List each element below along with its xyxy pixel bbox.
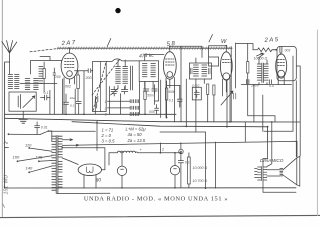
- wire top 01: [167, 84, 180, 86]
- wire HT bottom: [5, 187, 296, 189]
- wire R to bus: [77, 71, 79, 102]
- top bus hatched: [58, 47, 233, 49]
- svg-text:005: 005: [149, 110, 155, 114]
- wires osc coils: [118, 60, 133, 90]
- coil L3: [25, 79, 30, 90]
- tap wire 160: [18, 156, 53, 162]
- IFT1 wires: [145, 55, 164, 89]
- wire 2A5 feed: [236, 44, 253, 50]
- svg-text:10.700 Ω: 10.700 Ω: [193, 179, 208, 183]
- cap 005: [155, 105, 159, 115]
- bus line B5: [160, 132, 206, 188]
- wire antenna to tube: [31, 57, 63, 75]
- divider wires: [188, 153, 190, 188]
- cap 200: [84, 69, 93, 73]
- switch blade: [40, 131, 48, 134]
- speaker transformer core: [262, 167, 264, 181]
- punch hole dot: [115, 8, 120, 13]
- cap 05: [269, 80, 271, 84]
- svg-text:002: 002: [65, 85, 71, 89]
- small box left of W: [209, 57, 219, 66]
- tube 58 base leads: [166, 78, 175, 123]
- svg-text:UNDA RADIO - MOD. « MONO UNDA: UNDA RADIO - MOD. « MONO UNDA 151 »: [84, 196, 228, 203]
- circled junction dot: [180, 151, 182, 153]
- IFT2 box: [189, 63, 211, 79]
- osc tap coil 3: [130, 112, 138, 115]
- switch dot2: [48, 130, 50, 132]
- tube 2A7 cathode: [67, 71, 73, 77]
- power transformer secondary: [58, 136, 62, 187]
- svg-text:10a: 10a: [70, 96, 75, 100]
- tap wire 125: [39, 160, 52, 163]
- divider resistor: [188, 157, 191, 184]
- electrolytic cap 1: [117, 166, 126, 175]
- antenna coil L2: [15, 75, 19, 89]
- osc coil B: [123, 67, 128, 84]
- speaker transformer primary: [258, 167, 261, 180]
- wire right frame: [254, 66, 300, 157]
- resistor right vert: [247, 62, 249, 74]
- electrolytic cap 2: [170, 166, 179, 175]
- svg-text:2a = 13.5: 2a = 13.5: [127, 138, 146, 143]
- svg-text:2 = 0: 2 = 0: [101, 133, 112, 138]
- cap 0.1 beside box: [41, 95, 51, 100]
- svg-text:2: 2: [104, 107, 107, 111]
- resistor under IFT2 a: [207, 84, 209, 95]
- svg-text:L+M = 62μ: L+M = 62μ: [126, 127, 147, 132]
- dashed link to bus: [30, 49, 57, 52]
- svg-text:3 = 0.5: 3 = 0.5: [102, 139, 116, 144]
- dashed gang line 2: [92, 59, 120, 96]
- IFT1 coil b: [151, 64, 156, 77]
- wire tube plate: [75, 71, 85, 115]
- IFT2 coil b: [202, 65, 207, 76]
- wire left cluster: [44, 62, 54, 114]
- power transformer primary: [52, 136, 56, 190]
- tap dot 110: [28, 147, 30, 149]
- variable capacitor arrow: [23, 96, 35, 108]
- resistor 50m wires: [144, 82, 146, 114]
- svg-text:0.1: 0.1: [70, 104, 75, 108]
- rectifier filaments: [86, 167, 93, 173]
- bus line B3: [72, 122, 268, 140]
- tap wire 1: [108, 100, 131, 102]
- svg-text:1 = 71: 1 = 71: [102, 128, 114, 133]
- top right wires: [248, 50, 293, 132]
- svg-text:140: 140: [26, 166, 33, 171]
- dashed gang line: [93, 62, 106, 111]
- tube 58 grids: [166, 59, 175, 65]
- tube 2A5: [276, 54, 287, 78]
- driver transformer primary: [257, 64, 261, 80]
- cap 01 cathode B: [76, 101, 81, 114]
- resistor R osc: [77, 75, 80, 89]
- bus line B6: [244, 122, 246, 142]
- padder cap B: [121, 87, 127, 95]
- antenna: [2, 41, 17, 75]
- tube 2A7 grids: [65, 59, 75, 68]
- svg-text:160: 160: [13, 155, 20, 160]
- svg-text:003: 003: [285, 48, 291, 52]
- svg-text:1: 1: [105, 100, 107, 104]
- cap under 58 a: [144, 89, 149, 94]
- tap dot 160: [17, 160, 19, 162]
- coil L4: [34, 79, 39, 90]
- filter choke: [117, 151, 138, 153]
- svg-text:500k: 500k: [168, 90, 175, 94]
- tube 2A7: [61, 53, 78, 79]
- band box divider: [99, 62, 101, 112]
- wire switch to transformer: [48, 130, 95, 132]
- speaker bottom wire: [263, 181, 296, 193]
- svg-text:2 A 7: 2 A 7: [60, 40, 76, 47]
- osc coil: [39, 67, 43, 84]
- tube W diode: [223, 73, 230, 80]
- tap dot 125: [38, 160, 40, 162]
- svg-text:1000: 1000: [251, 84, 259, 88]
- tube 2A5 leads: [278, 77, 284, 85]
- osc coupling cap: [53, 68, 56, 79]
- svg-text:4a = 50: 4a = 50: [128, 132, 143, 137]
- IFT2 coil a: [193, 65, 198, 76]
- speaker transformer secondary: [263, 167, 266, 180]
- cap 01 under58: [178, 85, 182, 107]
- plug arrow 1: [62, 139, 72, 141]
- wires under IFT2: [196, 86, 214, 132]
- osc coil A: [116, 67, 121, 84]
- circled junction: [179, 149, 183, 153]
- svg-text:110: 110: [25, 142, 32, 147]
- pot volume: [221, 80, 233, 126]
- tap wire 140: [29, 166, 52, 172]
- tube 2A7 top cap: [69, 48, 71, 53]
- tube W: [220, 52, 232, 80]
- bus line B4: [9, 133, 41, 135]
- trimmer in band box: [96, 96, 98, 108]
- slash mark on bus: [107, 39, 111, 47]
- junction dot 2A5: [275, 49, 277, 51]
- padder trimmer arrow: [111, 88, 118, 95]
- scan edge right: [316, 30, 318, 216]
- wire 58 left lead: [160, 80, 162, 118]
- slash mark 2: [209, 35, 213, 43]
- margin tick: [3, 204, 5, 208]
- cap 1000: [246, 80, 249, 84]
- bus line B2: [5, 118, 301, 122]
- svg-text:+: +: [140, 147, 143, 152]
- wire to speaker transformer: [263, 122, 272, 167]
- svg-text:2 A 5: 2 A 5: [263, 37, 279, 44]
- cap 001: [35, 122, 40, 134]
- transformer wires: [259, 54, 267, 85]
- tube 58 top cap wire: [170, 46, 202, 57]
- power transformer core: [56, 136, 58, 194]
- top bus ticks: [57, 47, 230, 50]
- wire HT mid: [62, 158, 78, 165]
- cap under 58 b: [152, 89, 157, 94]
- svg-text:Pu: Pu: [4, 141, 8, 145]
- rectifier leads: [84, 170, 105, 188]
- speaker cone: [283, 156, 300, 186]
- svg-text:10000 Ω: 10000 Ω: [254, 56, 268, 60]
- wire W base marks: [234, 93, 236, 99]
- wire left rail: [5, 62, 10, 188]
- svg-text:W: W: [221, 39, 227, 45]
- ground symbol: [19, 119, 28, 123]
- scan edge bottom: [0, 215, 320, 217]
- tube 58: [163, 52, 176, 80]
- rounded box around 2A5: [277, 46, 296, 80]
- IFT1 coil a: [142, 64, 147, 77]
- osc tap coil 1: [130, 100, 138, 103]
- cap 003: [280, 47, 282, 55]
- tono cap: [194, 90, 199, 98]
- resistor 500k: [165, 88, 167, 100]
- cap 01 cathode A: [64, 94, 69, 114]
- tube 58 cathode: [167, 72, 173, 78]
- rectifier tube 80: [78, 164, 101, 176]
- switch dots: [8, 133, 10, 135]
- svg-text:0.01: 0.01: [41, 126, 48, 130]
- mains feed wire: [5, 131, 52, 148]
- arrow mark: [257, 53, 264, 56]
- tube 2A5 grids: [278, 60, 285, 66]
- svg-text:2: 2: [161, 148, 164, 152]
- resistor left: [43, 69, 45, 79]
- elec cap 1 wires: [121, 153, 124, 188]
- resistor 50m: [144, 91, 146, 99]
- driver transformer core: [262, 63, 264, 83]
- speaker terminals: [255, 169, 258, 178]
- wires right top: [231, 43, 291, 122]
- ground from gang box: [22, 111, 24, 119]
- svg-text:200: 200: [85, 76, 92, 80]
- wire junction dots: [61, 45, 272, 189]
- wire mid verticals: [62, 79, 120, 151]
- wire choke right: [138, 142, 216, 188]
- elec cap 2 wires: [174, 153, 177, 188]
- wire transformer bottom: [57, 192, 110, 194]
- resistor under IFT2 b: [213, 85, 215, 95]
- osc tap coil 2: [130, 106, 138, 109]
- tap dot 140: [28, 171, 30, 173]
- padder cap A: [111, 87, 117, 97]
- tube W grids: [222, 60, 230, 63]
- cap 01 filter: [178, 153, 183, 188]
- IFT1 box: [139, 61, 158, 82]
- voice coil: [280, 168, 283, 176]
- scan edge left: [1, 0, 3, 217]
- plug arrow 2 and long feed wire: [62, 141, 297, 156]
- svg-text:5 8: 5 8: [166, 41, 175, 48]
- wire between 58 IFT2: [181, 46, 186, 126]
- wire mesh mid: [109, 82, 158, 114]
- variable capacitor plates: [18, 95, 20, 109]
- tap wire 2: [108, 107, 131, 109]
- tube W base leads: [223, 79, 231, 123]
- resistor grid 2A5 zigzag: [253, 48, 276, 52]
- svg-text:475 kc: 475 kc: [139, 53, 155, 60]
- wire 500k down: [166, 81, 168, 118]
- tono box: [192, 87, 201, 100]
- tube 2A5 cathode: [278, 70, 285, 77]
- tube W top cap wire: [209, 46, 227, 57]
- svg-text:0.1: 0.1: [169, 98, 174, 102]
- band box: [93, 62, 107, 112]
- svg-text:100: 100: [55, 75, 61, 79]
- gang capacitor shield box: [9, 92, 36, 111]
- antenna coil L1: [8, 75, 12, 89]
- voice coil wires: [267, 170, 280, 176]
- svg-text:50m: 50m: [147, 93, 154, 97]
- IFT2 wires: [196, 58, 204, 86]
- svg-text:10.000 Ω: 10.000 Ω: [193, 166, 208, 170]
- driver transformer secondary: [264, 64, 268, 80]
- tap wire 110: [29, 148, 52, 151]
- tube 2A7 base leads: [64, 77, 75, 114]
- wire box top to IFT1: [106, 59, 139, 62]
- svg-text:0.5: 0.5: [269, 84, 274, 88]
- svg-text:DINAMICO: DINAMICO: [260, 158, 284, 163]
- wire HT top: [62, 148, 105, 170]
- bus line B1: [5, 113, 176, 115]
- wire coil to cathode: [20, 83, 57, 85]
- svg-text:125: 125: [36, 155, 43, 160]
- wire choke left: [109, 153, 117, 165]
- IFT2 caps: [191, 68, 210, 74]
